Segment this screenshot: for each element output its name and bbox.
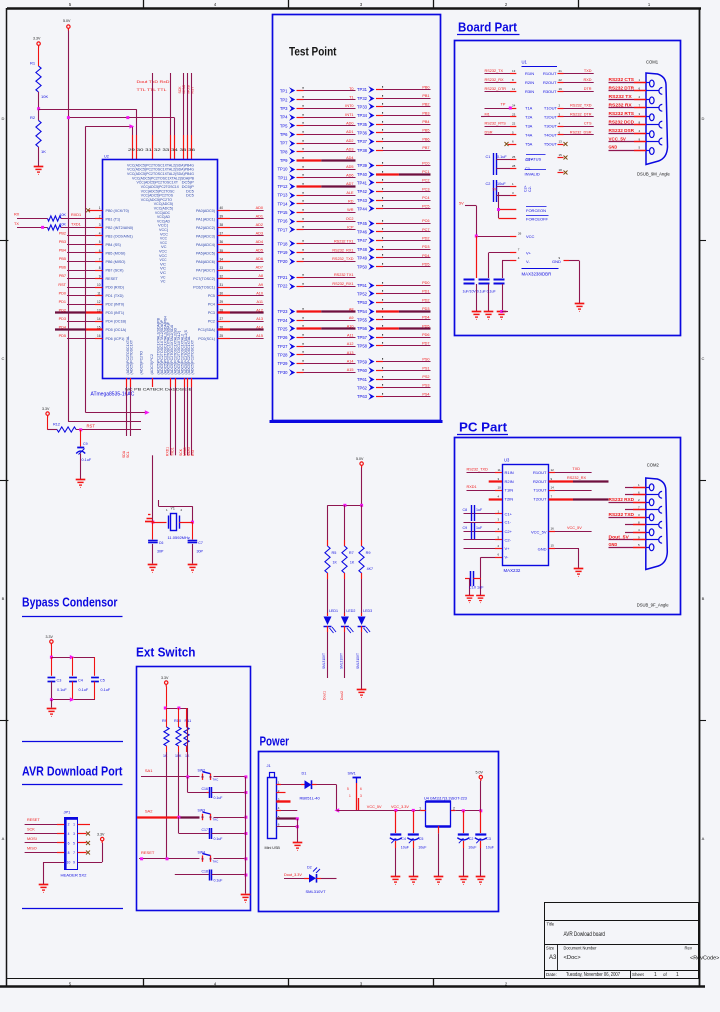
svg-text:VCC_5V: VCC_5V — [609, 136, 626, 141]
ground JP1 — [39, 885, 49, 893]
svg-text:V-: V- — [526, 259, 530, 264]
svg-text:AD3: AD3 — [256, 232, 263, 236]
svg-text:PD5: PD5 — [422, 324, 429, 328]
node SW4 bus junction — [244, 857, 247, 860]
svg-text:RS232 DTR: RS232 DTR — [609, 86, 635, 91]
svg-text:14: 14 — [551, 486, 555, 490]
svg-text:T1A: T1A — [525, 106, 533, 111]
wire U2 left pin 16 — [59, 334, 103, 339]
svg-text:5: 5 — [347, 787, 349, 791]
svg-text:1: 1 — [349, 794, 351, 798]
svg-text:A14: A14 — [256, 325, 263, 329]
wire U2 right pin 37 net AD3 — [218, 232, 264, 236]
svg-text:VC: VC — [161, 279, 166, 284]
node LED rail junction2 — [360, 504, 363, 507]
ground LED column 3 — [357, 690, 367, 698]
capacitor C17 — [179, 817, 246, 841]
wire U2 bottom pin stubs — [127, 378, 192, 455]
wire U4 gnd down — [438, 826, 440, 876]
svg-text:10K: 10K — [41, 94, 48, 99]
svg-text:U3: U3 — [504, 458, 510, 463]
resistor R9 — [359, 546, 373, 573]
svg-text:TXD1: TXD1 — [71, 222, 81, 226]
node rail junction c3 — [462, 809, 465, 812]
svg-text:PB5: PB5 — [422, 129, 429, 133]
svg-text:10uF: 10uF — [468, 846, 477, 850]
regulator U4 GM1117 — [419, 797, 467, 827]
svg-text:VCC_5V: VCC_5V — [531, 529, 547, 534]
svg-text:PD0: PD0 — [422, 281, 429, 285]
test point TP47 net PD2 — [357, 236, 431, 243]
svg-text:PA5(ADC5): PA5(ADC5) — [196, 251, 215, 255]
svg-text:T5OUT: T5OUT — [544, 142, 558, 147]
svg-text:RS232_TXD: RS232_TXD — [570, 104, 592, 108]
wire left bus x=85.5 — [85, 126, 87, 412]
ground U3 — [574, 569, 584, 577]
wire U3 V- row — [481, 553, 509, 560]
svg-text:0.1uF: 0.1uF — [101, 688, 111, 692]
test point TP52 net PD1 — [357, 290, 431, 297]
svg-text:DSUB_9M_Angle: DSUB_9M_Angle — [637, 172, 670, 177]
svg-text:TP9: TP9 — [280, 158, 288, 163]
svg-text:RXD1: RXD1 — [71, 213, 81, 217]
wire U3 R2OUT RS232_RX bold — [549, 476, 609, 482]
svg-text:6: 6 — [68, 841, 70, 845]
test point TP18 net RS232 TX1 — [277, 240, 355, 247]
svg-text:PS1: PS1 — [422, 366, 429, 370]
svg-text:A9: A9 — [349, 316, 354, 320]
svg-text:34: 34 — [220, 257, 224, 261]
wire RESET row — [139, 858, 200, 860]
svg-text:<Doc>: <Doc> — [564, 955, 582, 961]
svg-text:(ADC5)PC2TO: (ADC5)PC2TO — [139, 351, 144, 375]
svg-text:T2OUT: T2OUT — [544, 115, 558, 120]
svg-text:38: 38 — [220, 223, 224, 227]
resistor R1 — [30, 61, 48, 100]
ground C3 — [476, 877, 486, 885]
svg-text:TP16: TP16 — [277, 219, 288, 224]
test point TP20 net RS232_TXD — [277, 257, 355, 265]
svg-text:Dout2: Dout2 — [340, 691, 344, 700]
test point TP16 net OC2 — [277, 217, 355, 225]
test point TP55 net PD4 — [357, 316, 431, 323]
test point TP4 net INT1 — [280, 113, 356, 121]
wire J1 pin 5 — [276, 815, 299, 821]
wire COM2 pin 9 net Dout_5V — [609, 535, 659, 540]
wire U1 R2IN row — [485, 78, 594, 85]
wire COM2 pin 6 — [625, 491, 658, 495]
wire CON1 pin 5 net GND — [609, 145, 650, 151]
wire U2 right pin 26 net A14 — [218, 325, 264, 329]
svg-text:AD3: AD3 — [346, 147, 353, 151]
svg-text:TAC: TAC — [213, 859, 220, 863]
svg-text:TP58: TP58 — [357, 343, 368, 348]
svg-text:T1OUT: T1OUT — [544, 106, 558, 111]
capacitor C7 bypass U1c — [494, 280, 505, 312]
diode LED3 — [356, 609, 372, 669]
wire COM2 pin 4 — [625, 528, 649, 533]
svg-text:5: 5 — [99, 240, 101, 244]
svg-text:R3IN: R3IN — [525, 89, 534, 94]
svg-text:FORCEOFF: FORCEOFF — [526, 217, 549, 222]
svg-text:10K: 10K — [60, 213, 67, 217]
wire U2 right pin 27 net A13 — [218, 317, 264, 322]
svg-text:A13: A13 — [256, 317, 263, 321]
svg-text:PC6(TOSC1): PC6(TOSC1) — [193, 286, 215, 290]
svg-text:OC2: OC2 — [346, 217, 354, 221]
svg-text:TP7: TP7 — [280, 141, 288, 146]
svg-text:VCC_5V: VCC_5V — [567, 526, 582, 530]
svg-text:PD0 (RXD): PD0 (RXD) — [106, 286, 124, 290]
svg-text:Sheet: Sheet — [632, 972, 645, 977]
svg-text:TP17: TP17 — [277, 227, 288, 232]
svg-text:28: 28 — [512, 164, 516, 168]
wire J1 pin 1 — [276, 781, 304, 785]
wire CON1 pin 7 net RS232 RX — [609, 103, 659, 108]
wire U2 right pin 39 net AD1 — [218, 215, 264, 219]
svg-text:PD2 (INT0): PD2 (INT0) — [106, 303, 125, 307]
node RESET junction1 — [140, 857, 143, 860]
resistor R3 RXD — [14, 213, 103, 222]
svg-text:PD5: PD5 — [422, 262, 429, 266]
wire ext ground bus — [245, 777, 247, 894]
svg-text:TAC: TAC — [213, 818, 220, 822]
test point TP26 net A11 — [277, 333, 355, 340]
svg-text:TP48: TP48 — [357, 247, 368, 252]
svg-text:TP5: TP5 — [280, 123, 288, 128]
svg-text:A10: A10 — [256, 291, 263, 295]
svg-text:PB7: PB7 — [422, 146, 429, 150]
svg-text:C1+: C1+ — [505, 511, 513, 516]
svg-text:RESET: RESET — [106, 277, 119, 281]
svg-text:AD7: AD7 — [346, 182, 353, 186]
svg-text:Dout TxD RxD: Dout TxD RxD — [137, 80, 170, 84]
Board Part section box — [455, 41, 681, 336]
svg-text:AVR Download Port: AVR Download Port — [22, 765, 123, 779]
svg-text:MAX232: MAX232 — [504, 568, 521, 573]
svg-text:<RevCode>: <RevCode> — [690, 956, 719, 962]
node rail junction c4 — [479, 809, 482, 812]
svg-text:DC5: DC5 — [186, 193, 194, 198]
svg-text:Rev: Rev — [685, 946, 693, 951]
svg-text:TP38: TP38 — [357, 148, 368, 153]
svg-text:PC4: PC4 — [208, 303, 215, 307]
svg-text:AD1: AD1 — [346, 130, 353, 134]
AVR Download Port section title — [22, 765, 123, 785]
wire bypass bottom rail — [51, 697, 95, 701]
svg-text:30P: 30P — [157, 550, 164, 554]
svg-text:T1OUT: T1OUT — [533, 488, 547, 493]
svg-text:RXD1: RXD1 — [166, 447, 170, 456]
test point TP43 net PC4 — [357, 196, 431, 204]
svg-text:SCK: SCK — [27, 828, 35, 832]
diode LED2 — [339, 609, 355, 669]
resistor R12 — [48, 423, 76, 433]
svg-text:AD7: AD7 — [256, 266, 263, 270]
svg-text:Tuesday, November 06, 2007: Tuesday, November 06, 2007 — [566, 972, 620, 978]
svg-text:RST: RST — [191, 449, 195, 456]
svg-text:PD7: PD7 — [422, 342, 429, 346]
switch SW3 — [198, 809, 220, 822]
svg-text:1uF: 1uF — [476, 508, 483, 512]
svg-text:TP39: TP39 — [357, 163, 368, 168]
ground C4 — [391, 877, 401, 885]
node SA1 junction — [186, 775, 189, 778]
svg-text:TP19: TP19 — [277, 250, 288, 255]
node arrow y=412.5 — [145, 410, 150, 414]
svg-text:16: 16 — [551, 527, 555, 531]
svg-text:PS4: PS4 — [422, 392, 429, 396]
svg-text:5.0V: 5.0V — [476, 771, 484, 775]
U3 VCC pin — [531, 526, 592, 534]
svg-text:PC4: PC4 — [422, 196, 429, 200]
wire U1 R3IN row — [485, 87, 594, 94]
wire U1 T5A row — [505, 140, 568, 147]
resistor R9 pullup — [162, 708, 169, 859]
wire y=412.5 run — [86, 412, 148, 414]
wire AREF run y=109 — [39, 109, 137, 135]
U2 left pin numbers — [97, 206, 101, 338]
svg-text:13: 13 — [559, 140, 563, 144]
svg-text:12: 12 — [97, 300, 101, 304]
svg-text:JP1: JP1 — [64, 810, 72, 815]
svg-text:PB2: PB2 — [59, 232, 66, 236]
svg-text:PB0 (XCK/T0): PB0 (XCK/T0) — [106, 209, 129, 213]
wire U2 left pin 4 — [59, 232, 103, 236]
svg-text:1: 1 — [654, 972, 657, 978]
svg-text:19: 19 — [559, 87, 563, 91]
svg-text:RS232 TX1: RS232 TX1 — [334, 240, 354, 244]
net labels below U2 group1 — [122, 450, 130, 458]
section separator line 2 — [22, 908, 123, 910]
svg-text:TP50: TP50 — [357, 264, 368, 269]
svg-text:Bypass Condensor: Bypass Condensor — [22, 596, 118, 610]
svg-text:C2-: C2- — [505, 537, 512, 542]
U1 V- pin — [502, 256, 530, 264]
svg-text:TP26: TP26 — [277, 335, 288, 340]
svg-text:DSR: DSR — [485, 131, 493, 135]
svg-text:V+: V+ — [526, 251, 532, 256]
wire 5V vertical bus x=68 — [68, 31, 70, 422]
svg-text:5V: 5V — [493, 188, 498, 192]
wire J1 shield to ground — [297, 819, 299, 843]
svg-text:PC Part: PC Part — [459, 421, 508, 435]
svg-text:T0: T0 — [349, 87, 353, 91]
svg-text:PB3: PB3 — [59, 240, 66, 244]
svg-text:SW1: SW1 — [348, 772, 356, 776]
svg-text:PB3 (OC0/AIN1): PB3 (OC0/AIN1) — [106, 234, 133, 238]
svg-text:PB0: PB0 — [422, 85, 429, 89]
node SW2 bus junction — [244, 775, 247, 778]
svg-text:T1IN: T1IN — [505, 488, 514, 493]
ground crystal left — [145, 515, 154, 522]
svg-text:TP: TP — [501, 103, 506, 107]
svg-text:WR: WR — [347, 208, 354, 212]
ground C6 — [148, 565, 158, 573]
wire J1 pin 6 — [276, 823, 299, 829]
svg-text:PD0: PD0 — [59, 291, 66, 295]
node junction y=117.6 — [67, 116, 70, 119]
svg-text:HEADER 5X2: HEADER 5X2 — [61, 873, 88, 878]
svg-text:AD0: AD0 — [346, 121, 353, 125]
test point TP41 net PC2 — [357, 179, 431, 186]
svg-text:C6: C6 — [159, 541, 164, 545]
svg-text:TP24: TP24 — [277, 318, 288, 323]
svg-text:14: 14 — [97, 317, 101, 321]
test point TP2 net T1 — [280, 95, 356, 102]
node ext rail left — [164, 707, 167, 710]
test point TP10 net AD5 — [277, 165, 355, 173]
svg-text:A8: A8 — [349, 307, 354, 311]
svg-text:3.3V: 3.3V — [46, 635, 54, 639]
svg-text:T1: T1 — [349, 95, 353, 99]
test point TP63 net PS4 — [357, 392, 431, 400]
svg-text:C3: C3 — [486, 837, 491, 841]
test point TP62 net PS3 — [357, 384, 431, 391]
test point TP24 net A9 — [277, 316, 355, 324]
svg-text:PD2: PD2 — [422, 236, 429, 240]
svg-text:10uF: 10uF — [486, 846, 495, 850]
svg-text:PD1: PD1 — [59, 300, 66, 304]
svg-text:TP21: TP21 — [277, 275, 288, 280]
wire JP1 net SCK — [25, 828, 65, 834]
svg-text:GND: GND — [609, 542, 618, 547]
net labels below U2 group2 — [166, 447, 195, 456]
wire reset supply down — [47, 418, 49, 430]
test point TP32 net PB1 — [357, 94, 431, 102]
wire y=421.9 run — [68, 421, 141, 423]
ground U1 cap2 — [484, 312, 494, 320]
svg-text:TP36: TP36 — [357, 130, 368, 135]
svg-text:26: 26 — [518, 232, 522, 236]
wire LED column 1 middle — [327, 573, 329, 613]
svg-text:RB051L-40: RB051L-40 — [300, 796, 321, 801]
wire U2 left pin 9 — [59, 274, 103, 278]
test point TP12 net AD7 — [277, 182, 355, 190]
svg-text:TP10: TP10 — [277, 167, 288, 172]
svg-text:R1IN: R1IN — [525, 71, 534, 76]
svg-text:8: 8 — [99, 266, 101, 270]
svg-text:3.3V: 3.3V — [42, 407, 50, 411]
svg-text:3.3V: 3.3V — [161, 676, 169, 680]
svg-text:TP45: TP45 — [357, 221, 368, 226]
connector JP1 header 5x2 — [61, 810, 88, 878]
node C17 bus junction — [244, 832, 247, 835]
U2 interior pin names — [106, 162, 216, 374]
wire U2 left pin 8 — [59, 266, 103, 271]
svg-text:RS232 TX1: RS232 TX1 — [334, 273, 354, 277]
power 3.3V supply ext switch — [161, 676, 169, 687]
wire RST net — [76, 424, 141, 430]
node XTAL junction A — [151, 521, 154, 524]
test point TP48 net PD3 — [357, 245, 431, 253]
wire U2 right pin 31 net A9 — [218, 283, 264, 288]
svg-text:COM2: COM2 — [647, 463, 660, 468]
svg-text:TP41: TP41 — [357, 181, 368, 186]
resistor R4 TXD — [14, 222, 103, 230]
svg-text:VCC: VCC — [526, 234, 535, 239]
test point TP31 net PB0 — [357, 85, 431, 93]
svg-text:0.1uF: 0.1uF — [214, 837, 223, 841]
svg-text:11.0592MHz: 11.0592MHz — [168, 535, 190, 540]
svg-text:C2+: C2+ — [505, 529, 513, 534]
svg-text:T4A: T4A — [525, 133, 533, 138]
wire JP1 net MOSI — [25, 837, 65, 843]
svg-text:10: 10 — [498, 486, 502, 490]
svg-text:PD1: PD1 — [422, 290, 429, 294]
svg-text:TP53: TP53 — [357, 300, 368, 305]
svg-text:11: 11 — [512, 87, 515, 91]
svg-text:Board Part: Board Part — [458, 21, 518, 35]
svg-text:TTL TTL TTL: TTL TTL TTL — [137, 88, 167, 92]
svg-text:10uF: 10uF — [497, 182, 506, 186]
svg-text:A12: A12 — [256, 308, 263, 312]
svg-text:PB6: PB6 — [59, 266, 66, 270]
svg-text:TP46: TP46 — [357, 230, 368, 235]
svg-text:5.0V: 5.0V — [63, 19, 71, 23]
svg-text:AD2: AD2 — [256, 223, 263, 227]
svg-text:TP37: TP37 — [357, 139, 368, 144]
svg-text:(ADC5)PC2TOSC1XT: (ADC5)PC2TOSC1XT — [190, 339, 195, 374]
svg-text:PD3: PD3 — [422, 307, 429, 311]
svg-text:RS232 RXD: RS232 RXD — [609, 497, 635, 502]
svg-text:TP23: TP23 — [277, 309, 288, 314]
svg-text:TP32: TP32 — [357, 96, 368, 101]
ground C7 — [188, 565, 198, 573]
svg-text:A9: A9 — [258, 283, 263, 287]
test point TP23 net A8 — [277, 307, 355, 315]
svg-text:C1-: C1- — [525, 166, 532, 171]
capacitor C2 — [486, 180, 533, 202]
ground J1 — [293, 843, 303, 851]
wire U2 left pin 15 — [55, 325, 103, 329]
svg-text:T2A: T2A — [525, 115, 533, 120]
wire U2 right pin 36 net AD4 — [218, 240, 264, 244]
svg-text:TP29: TP29 — [277, 361, 288, 366]
power 5V supply LEDs — [356, 457, 364, 468]
switch SW2 — [198, 768, 220, 781]
svg-text:SCL: SCL — [126, 451, 130, 458]
test point TP36 net PB5 — [357, 129, 431, 136]
svg-text:GND: GND — [538, 547, 547, 552]
power 3.3V supply divider — [33, 37, 41, 48]
svg-text:NC PB CATBCK DASDSE-B: NC PB CATBCK DASDSE-B — [125, 388, 193, 392]
svg-text:M1: M1 — [485, 113, 490, 117]
svg-text:PC1(SDA): PC1(SDA) — [198, 328, 215, 332]
test point TP15 net WR — [277, 208, 355, 216]
svg-text:2: 2 — [68, 822, 70, 826]
capacitor C5 bypass U1a — [464, 236, 477, 311]
svg-text:RS232 DCD: RS232 DCD — [609, 119, 635, 124]
crystal Y1 — [153, 507, 193, 541]
Bypass Condensor section title — [22, 596, 123, 617]
svg-text:5.0V: 5.0V — [356, 457, 364, 461]
svg-text:36: 36 — [220, 240, 224, 244]
svg-text:COM1: COM1 — [646, 60, 659, 65]
node SA2 junction — [177, 816, 180, 819]
U1 part number label — [522, 269, 559, 277]
wire J1 pin 4 — [276, 806, 297, 810]
svg-text:PB4: PB4 — [59, 249, 66, 253]
svg-text:1uF/10V 0.1uF 0.1uF: 1uF/10V 0.1uF 0.1uF — [463, 290, 496, 294]
svg-text:TP49: TP49 — [357, 256, 368, 261]
svg-text:PC3: PC3 — [208, 311, 215, 315]
svg-text:TP55: TP55 — [357, 317, 368, 322]
svg-text:T3A: T3A — [525, 124, 533, 129]
wire U1 T2A row — [485, 113, 594, 120]
wire JP1 pin9 to 3.3V — [78, 843, 103, 863]
ground U1 cap1 — [472, 312, 482, 320]
